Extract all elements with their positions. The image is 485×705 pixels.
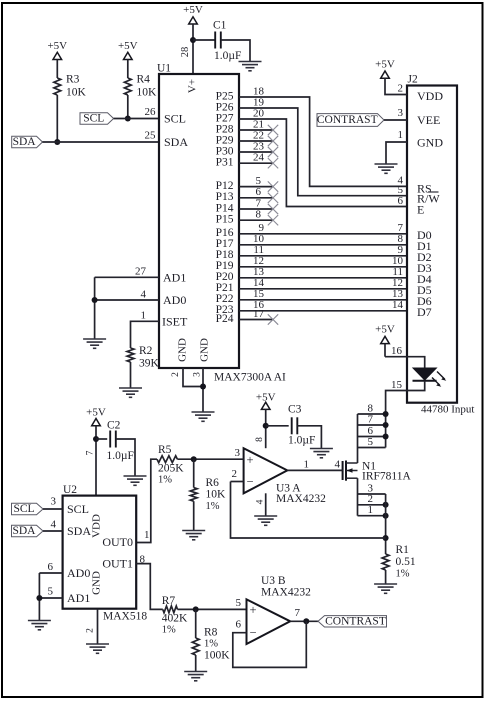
wire [130,362,132,388]
pin 2 label [171,372,181,377]
connector J2 box [407,74,457,403]
wire drain pin6 [358,434,389,440]
capacitor C2 [107,419,134,462]
svg-text:+5V: +5V [47,40,67,52]
svg-text:P15: P15 [216,214,234,226]
resistor R3 [54,74,87,99]
capacitor C1 [213,20,241,63]
J2 pin name VDD [417,89,443,103]
svg-text:R8: R8 [204,627,218,639]
svg-text:C2: C2 [107,419,121,431]
svg-text:14: 14 [392,299,404,311]
wire [221,40,250,62]
ground (AD0/AD1) [83,339,106,348]
pin 7 label [86,450,96,455]
no-connect stub pin 6 [239,186,278,203]
wire [266,425,289,427]
LED backlight diode [413,368,447,387]
no-connect stub pin 8 [239,209,278,226]
wire GND pin [386,142,407,164]
svg-text:8: 8 [255,437,265,442]
ground (R6) [182,531,205,540]
svg-text:16: 16 [391,345,403,357]
svg-text:ISET: ISET [162,314,188,328]
wire data bus D3 (pin 12) [239,255,407,267]
node AD junction [36,595,42,601]
pin 25 label [145,130,157,142]
wire source pin1 [358,513,389,519]
svg-text:6: 6 [236,619,242,631]
U2 pin name OUT0 [102,535,133,549]
wire data bus D0 (pin 9) [239,222,407,234]
wire drain pin8 [358,411,389,417]
svg-text:AD0: AD0 [163,293,186,307]
pin 19 label [253,96,265,108]
svg-text:+5V: +5V [375,324,395,336]
power +5V (backlight) [375,324,395,357]
wire U1 GND left [183,368,203,387]
svg-text:1.0µF: 1.0µF [214,50,241,62]
svg-text:4: 4 [335,459,341,471]
svg-text:+5V: +5V [183,4,203,16]
svg-text:SCL: SCL [13,503,34,515]
U2 pin name SDA [67,524,91,538]
wire OUT1 route [136,564,163,610]
pin 5 label [236,597,242,609]
wire [177,458,243,460]
pin 1 label [141,310,147,322]
wire [43,508,63,510]
wire data bus D1 (pin 10) [239,233,407,245]
wire U2 GND [97,609,99,644]
wire drain rail [357,414,359,463]
wire ISET [131,321,160,348]
ground (U2 AD) [28,621,51,630]
J2 pin name VEE [417,113,440,127]
node SDA-R3 junction [54,139,60,145]
svg-text:AD1: AD1 [67,591,90,605]
resistor R7 [162,595,188,635]
U1 label MAX7300A AI [214,372,286,384]
node AD junction [92,297,98,303]
svg-text:1: 1 [141,310,147,322]
svg-text:P13: P13 [216,191,234,203]
svg-text:1: 1 [144,529,150,541]
wire AD1 [95,276,159,278]
U2 pin name VDD [91,514,103,538]
pin 1 label [398,129,404,141]
svg-text:15: 15 [391,379,403,391]
U1 pin name GND (right) [199,338,211,362]
svg-text:SDA: SDA [13,136,37,148]
wire pin16 [385,357,425,368]
U2 pin name GND [91,571,103,595]
wire AD1 [39,597,62,599]
svg-text:1: 1 [368,504,374,516]
svg-text:R5: R5 [158,444,172,456]
ground (R2) [119,388,142,397]
svg-text:0.51: 0.51 [396,556,416,568]
wire sense bus [385,494,387,554]
net flag SCL (U2) [12,503,44,515]
svg-text:39K: 39K [139,358,160,370]
svg-text:MAX4232: MAX4232 [261,587,311,599]
wire P27 to E [239,119,407,207]
net flag SDA (U2) [12,525,44,537]
ground (C3) [310,449,333,458]
op-amp-chip U1 MAX7300 box [157,63,239,369]
svg-text:J2: J2 [408,74,418,86]
svg-text:17: 17 [253,308,265,320]
node output junction [303,618,309,624]
node V+ junction [190,37,196,43]
pin 5 label [48,586,54,598]
wire pin15 [386,381,425,448]
svg-text:R6: R6 [206,477,220,489]
U1 port labels P25-P24 [216,90,234,324]
no-connect stub pin 21 [239,118,278,135]
resistor R5 [157,444,184,486]
svg-text:6: 6 [256,186,262,198]
svg-text:2: 2 [171,372,181,377]
pin 20 label [253,107,265,119]
svg-text:P31: P31 [216,157,234,169]
svg-text:4: 4 [51,519,57,531]
svg-text:44780 Input: 44780 Input [421,404,474,416]
pin 8 label [140,554,146,566]
pin 26 label [145,106,157,118]
ground (U3-A) [254,516,277,525]
U2 pin name AD0 [67,566,90,580]
svg-text:MAX4232: MAX4232 [276,493,326,505]
dac U2 MAX518 box [63,484,137,609]
wire output [290,620,318,622]
wire data bus D7 (pin 16) [239,299,407,311]
no-connect stub pin 17 [239,308,278,325]
U1 pin name SDA [164,135,188,149]
pin 4 label [256,499,266,504]
pin 8 label [255,437,265,442]
pin 7 label [368,413,374,425]
svg-text:U3 B: U3 B [261,575,286,587]
svg-text:+5V: +5V [118,40,138,52]
svg-text:6: 6 [48,561,54,573]
svg-text:4: 4 [141,289,147,301]
pin 1 label [304,459,310,471]
svg-text:+: + [249,603,256,617]
svg-text:2: 2 [398,83,404,95]
svg-text:U2: U2 [63,484,77,496]
ground (U1) [192,412,215,421]
svg-text:8: 8 [256,209,262,221]
svg-text:MAX518: MAX518 [103,611,147,623]
wire P25 to RS [239,97,407,186]
op-amp U3-B MAX4232 [247,575,312,644]
svg-text:AD1: AD1 [163,270,186,284]
svg-text:1%: 1% [206,501,220,512]
svg-text:10K: 10K [137,87,158,99]
pin 28 label [180,47,191,58]
resistor R4 [124,74,157,99]
J2 pin name RS [417,182,432,196]
svg-text:3: 3 [51,496,57,508]
svg-text:5: 5 [368,436,374,448]
wire [195,609,197,671]
pin 16 label [391,345,403,357]
wire [385,570,387,584]
no-connect stub pin 24 [239,152,278,169]
svg-text:5: 5 [48,586,54,598]
svg-text:P14: P14 [216,202,234,214]
wire [193,39,215,41]
power +5V (U2) [86,407,106,496]
J2 data pin names [417,228,432,319]
svg-text:U1: U1 [157,63,171,75]
wire [56,95,58,142]
node V+ C3 junction [263,423,269,429]
svg-text:5: 5 [236,597,242,609]
wire SDA [43,141,160,143]
svg-text:CONTRAST: CONTRAST [325,615,386,627]
J2 pin name E [417,203,424,217]
net flag SCL [80,113,114,125]
U2 pin name OUT1 [102,557,133,571]
svg-text:R4: R4 [137,74,151,86]
svg-text:IRF7811A: IRF7811A [362,471,411,483]
wire [193,459,195,530]
svg-text:+5V: +5V [86,407,106,419]
svg-text:205K: 205K [158,463,184,475]
node sense junction [383,535,389,541]
svg-text:GND: GND [199,338,211,362]
J2 pin name GND [417,136,443,150]
no-connect stub pin 7 [239,197,278,214]
node GND junction [200,384,206,390]
pin 15 label [391,379,403,391]
svg-text:C3: C3 [288,404,302,416]
ground (J2) [375,164,398,173]
svg-text:2: 2 [232,468,238,480]
ground (U2) [86,644,109,653]
svg-text:10K: 10K [206,489,227,501]
net flag SDA [12,136,43,148]
svg-text:1.0µF: 1.0µF [288,434,315,446]
no-connect stub pin 22 [239,129,278,146]
wire drain pin5 [358,447,386,449]
U2 pin name SCL [67,502,89,516]
svg-text:D7: D7 [417,305,432,319]
U1 pin name SCL [164,112,186,126]
wire source pin3 [358,493,386,495]
resistor R6 [190,477,226,512]
wire AD0 [95,299,159,301]
svg-text:SCL: SCL [83,113,104,125]
svg-text:6: 6 [398,195,404,207]
J2 label 44780 Input [421,404,474,416]
no-connect stub pin 5 [239,175,278,192]
svg-text:2: 2 [86,628,96,633]
svg-text:−: − [249,625,256,639]
pin 5 label [398,184,404,196]
svg-text:+: + [246,453,253,467]
svg-text:3: 3 [193,372,203,377]
svg-text:C1: C1 [213,20,227,32]
svg-text:+5V: +5V [375,59,395,71]
U1 pin name ISET [162,314,188,328]
svg-text:28: 28 [180,47,191,58]
svg-text:26: 26 [145,106,157,118]
svg-text:OUT0: OUT0 [102,535,133,549]
svg-text:VDD: VDD [91,514,103,538]
svg-text:R2: R2 [139,345,153,357]
resistor R1 [382,544,416,580]
wire op-amp out to gate [287,469,342,471]
wire feedback U3-B [233,621,306,667]
svg-text:AD0: AD0 [67,566,90,580]
net flag CONTRAST (VEE) [317,114,384,127]
pin 2 label [86,628,96,633]
ground (C2) [124,476,147,485]
power +5V (VDD) [375,59,407,95]
wire [297,426,321,449]
ground (C1) [239,62,262,71]
capacitor C3 [288,404,315,447]
pin 4 label [335,459,341,471]
pin 18 label [253,85,265,97]
svg-text:4: 4 [256,499,266,504]
wire data bus D4 (pin 13) [239,266,407,278]
wire AD1-AD0 tie [94,277,96,339]
pin 2 label [398,83,404,95]
wire OUT0 route [136,459,157,542]
wire data bus D6 (pin 15) [239,288,407,300]
power +5V (U3-A) [256,391,276,448]
power +5V (R4) [118,40,138,78]
pin 6 label [398,195,404,207]
pin 3 label [51,496,57,508]
svg-text:+5V: +5V [256,391,276,403]
J2 pin name R/W [417,192,440,206]
svg-text:7: 7 [295,607,301,619]
svg-text:SCL: SCL [67,502,89,516]
resistor R8 [192,627,230,662]
svg-text:1: 1 [304,459,310,471]
svg-text:25: 25 [145,130,157,142]
node R7/R8 junction [193,606,199,612]
pin 1 label [368,504,374,516]
wire data bus D5 (pin 14) [239,277,407,289]
wire SCL [114,118,159,120]
svg-text:P24: P24 [216,313,234,325]
pin 6 label [368,425,374,437]
wire [43,530,63,532]
svg-text:GND: GND [417,136,443,150]
wire source pin2 [358,502,389,508]
svg-text:3: 3 [235,447,241,459]
pin 3 label [368,482,374,494]
wire [178,608,247,610]
svg-text:1: 1 [398,129,404,141]
svg-text:10K: 10K [66,87,87,99]
transistor N1 IRF7811A [343,461,412,483]
svg-text:OUT1: OUT1 [102,557,133,571]
svg-text:MAX7300A AI: MAX7300A AI [214,372,286,384]
pin 3 label [398,107,404,119]
pin 3 label [235,447,241,459]
wire V- to ground [265,493,267,516]
svg-text:1%: 1% [158,475,172,486]
power +5V (U1 V+) [183,4,203,74]
wire U1 GND right [202,368,204,412]
svg-text:SDA: SDA [12,525,36,537]
svg-text:7: 7 [86,450,96,455]
pin 7 label [295,607,301,619]
pin 4 label [141,289,147,301]
pin 5 label [368,436,374,448]
svg-text:−: − [246,474,253,488]
resistor R2 [127,345,159,370]
svg-text:7: 7 [368,413,374,425]
svg-text:R3: R3 [66,74,80,86]
pin 3 label [193,372,203,377]
op-amp U3-A MAX4232 [244,448,326,505]
wire [116,439,135,476]
svg-text:23: 23 [253,140,265,152]
wire feedback U3-A [231,482,386,539]
ground (R8) [184,672,207,681]
net flag CONTRAST (out) [318,615,387,627]
svg-text:SDA: SDA [67,524,91,538]
svg-text:402K: 402K [162,613,188,625]
svg-text:5: 5 [256,175,262,187]
U2 label MAX518 [103,611,147,623]
wire [127,95,129,119]
node SCL-R4 junction [125,116,131,122]
pin 1 label [144,529,150,541]
wire [384,119,407,121]
pin 2 label [368,493,374,505]
node R5/R6 junction [191,456,197,462]
U1 pin name AD1 [163,270,186,284]
U1 pin name GND (left) [177,338,189,362]
svg-text:1%: 1% [396,569,410,580]
wire source rail [357,478,359,516]
wire P26 to R/W [239,108,407,196]
svg-text:VEE: VEE [417,113,440,127]
pin 2 label [232,468,238,480]
pin 6 label [48,561,54,573]
svg-text:1.0µF: 1.0µF [107,450,134,462]
svg-text:R1: R1 [396,544,410,556]
svg-text:VDD: VDD [417,89,443,103]
svg-text:100K: 100K [204,650,230,662]
svg-text:3: 3 [398,107,404,119]
svg-text:GND: GND [91,571,103,595]
pin 8 label [368,402,374,414]
svg-text:GND: GND [177,338,189,362]
svg-text:V+: V+ [187,79,199,93]
svg-text:R7: R7 [162,595,176,607]
wire AD0 [39,572,62,574]
U1 pin name V+ [187,79,199,93]
svg-text:E: E [417,203,424,217]
svg-text:CONTRAST: CONTRAST [317,114,378,126]
svg-text:P12: P12 [216,180,234,192]
svg-text:P30: P30 [216,145,234,157]
wire [96,438,107,440]
wire drain pin7 [358,422,389,428]
svg-text:7: 7 [256,197,262,209]
